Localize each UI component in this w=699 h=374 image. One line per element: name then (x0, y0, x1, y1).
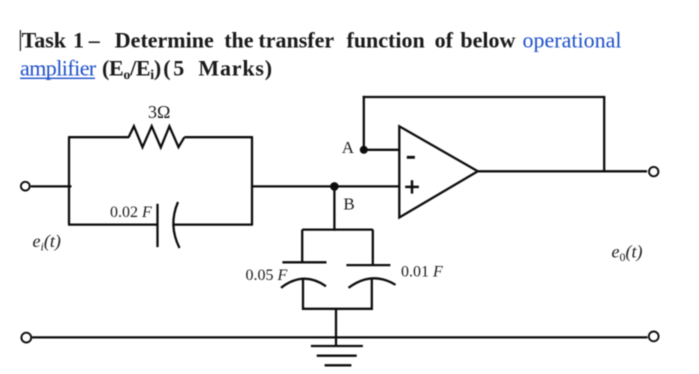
input terminal circle (21, 182, 30, 191)
wire capacitor bank bottom rail (302, 308, 373, 310)
capacitor C 0.05F flat plate (282, 261, 326, 263)
wire feedback right vertical (603, 97, 605, 171)
wire box right vertical (251, 137, 253, 224)
wire top rail left segment (68, 136, 129, 138)
svg-text:Marks): Marks) (198, 56, 272, 81)
svg-text:Task: Task (22, 27, 67, 52)
wire node B down lead (333, 186, 335, 230)
text cursor caret (19, 30, 21, 51)
capacitor C 0.02F curved plate (173, 202, 179, 248)
svg-text:3Ω: 3Ω (148, 102, 170, 122)
wire top rail right segment (184, 136, 253, 138)
wire minus input (364, 149, 400, 151)
wire left cap upper lead (301, 230, 303, 263)
svg-text:transfer: transfer (258, 27, 334, 52)
svg-text:B: B (343, 194, 354, 213)
output terminal circle (649, 167, 658, 176)
wire box left vertical (68, 137, 70, 224)
svg-text:function: function (347, 27, 425, 52)
wire output (478, 170, 647, 172)
wire bottom rail right segment (173, 223, 253, 225)
wire main node line to op-amp plus input (252, 185, 400, 187)
svg-text:ei(t): ei(t) (33, 231, 61, 254)
svg-text:Determine: Determine (115, 27, 214, 52)
title line 1 (22, 27, 622, 52)
svg-text:(5: (5 (163, 56, 187, 81)
ground bar 2 (317, 355, 357, 357)
svg-text:0.02 F: 0.02 F (110, 204, 152, 221)
wire capacitor bank top rail (302, 228, 373, 230)
resistor R 3ohm zigzag (129, 126, 185, 147)
capacitor C 0.01F curved plate (349, 278, 396, 288)
op-amp plus sign vertical (411, 180, 414, 193)
wire right cap upper lead (372, 230, 374, 266)
wire left cap lower lead (302, 279, 304, 310)
node A junction dot (360, 146, 368, 154)
capacitor C 0.01F flat plate (346, 264, 390, 266)
capacitor C 0.02F straight plate (156, 204, 158, 247)
wire bottom rail left segment (68, 223, 158, 225)
svg-text:operational: operational (523, 27, 622, 52)
ground bar 1 (311, 345, 363, 347)
svg-text:0.05 F: 0.05 F (246, 267, 288, 284)
wire bottom return (32, 336, 647, 338)
svg-text:1: 1 (73, 27, 84, 52)
svg-text:below: below (460, 27, 515, 52)
wire node A up lead (363, 96, 365, 150)
op-amp plus sign horizontal (405, 186, 419, 189)
ground bar 3 (325, 364, 352, 366)
capacitor C 0.05F curved plate (281, 279, 326, 288)
wire ground lead (335, 309, 337, 346)
wire feedback top rail (363, 96, 606, 98)
wire right cap lower lead (371, 280, 373, 310)
op-amp minus sign (407, 156, 415, 159)
svg-text:–: – (88, 27, 101, 52)
svg-text:amplifier: amplifier (20, 56, 97, 81)
title line 2 (20, 56, 273, 84)
svg-text:0.01 F: 0.01 F (401, 264, 443, 281)
svg-text:e0(t): e0(t) (612, 242, 643, 265)
bottom left terminal circle (21, 333, 31, 343)
op-amp U1 triangle (399, 126, 478, 217)
svg-text:the: the (224, 27, 254, 52)
wire input to box (31, 185, 72, 187)
svg-text:of: of (435, 27, 454, 52)
node B junction dot (330, 182, 339, 191)
svg-text:A: A (342, 138, 355, 157)
bottom right terminal circle (649, 332, 659, 342)
